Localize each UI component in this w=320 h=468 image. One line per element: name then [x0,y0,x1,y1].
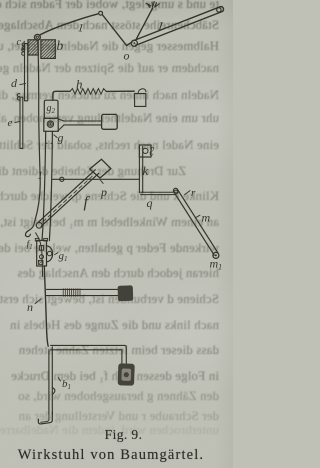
svg-text:h: h [76,77,83,92]
bar q (bottom of bracket) [141,192,178,194]
diamond head of rod f [90,159,111,178]
slide rod n [47,285,134,301]
connecting link p (horizontal) [53,178,140,180]
lower frame bar [44,266,48,346]
label m [196,211,211,225]
label n [27,299,41,314]
block b right (hatched) [41,40,55,59]
tassel line with tuft [136,1,160,40]
armature holder with pivot [44,118,64,131]
svg-text:r: r [191,187,196,199]
svg-text:e: e [8,117,13,129]
label g1 [55,250,68,263]
label d [11,76,26,90]
label b1 (lower) [58,378,71,391]
svg-text:p: p [100,185,107,199]
lever pivot o [131,40,137,46]
svg-text:g1: g1 [59,250,68,263]
svg-text:ℓ: ℓ [149,144,155,159]
spring h zigzag [70,89,106,95]
label e [8,117,21,129]
svg-text:c: c [17,37,22,48]
pulley c roller [35,34,41,40]
svg-text:m1: m1 [210,257,223,272]
armature head [102,114,118,129]
foot of post [38,412,52,424]
svg-text:f: f [84,194,91,211]
bracket frame k [139,145,151,193]
presser arm (L frame) [51,345,135,385]
lever m m1 [173,188,219,258]
pusher rod f with diamond head [36,170,98,229]
spring h right lead [106,90,134,92]
svg-text:g2: g2 [47,103,56,115]
svg-text:m: m [202,211,211,225]
spring h lead (left elbow) [53,91,70,100]
armature rod [64,121,102,125]
svg-text:n: n [27,300,33,314]
block b left (hatched) [28,40,38,55]
svg-text:1: 1 [37,170,43,182]
thread guide eyelet [99,11,103,15]
post flag [52,388,55,394]
bracket c [22,41,24,50]
label g [54,131,64,145]
main frame bar (upper wide part) [42,131,46,240]
caption title [0,447,222,464]
node on link p [60,177,64,181]
ghost show-through verso text (mirrored) [0,0,233,468]
magnet coil box g2 [44,100,58,118]
svg-text:o: o [124,49,130,63]
thread hook f1 [25,223,34,237]
caption Fig. 9. [0,427,247,443]
thread 1 (guide down to lever pivot) [103,15,133,46]
wire from hook down behind plate [36,233,43,277]
figure drawing [0,0,233,468]
svg-text:b: b [57,38,64,53]
rail e [17,94,23,149]
svg-text:k: k [143,163,149,178]
lever arm (top right rod) [134,7,224,46]
thread 1 (long vertical run) [34,41,40,223]
svg-text:d: d [11,76,18,90]
thread 1 (upper run to guide) [40,14,98,35]
svg-text:b1: b1 [62,378,71,391]
label p [100,180,107,199]
svg-text:f1: f1 [27,239,33,251]
label r [185,187,196,199]
svg-text:q: q [147,196,153,210]
rail d [22,44,28,101]
svg-text:g: g [58,131,64,145]
svg-text:1: 1 [77,22,84,35]
ratchet plate g1 [35,238,52,266]
spring anchor block with curl [135,89,146,107]
paper background [0,0,233,468]
svg-text:1: 1 [156,19,164,34]
